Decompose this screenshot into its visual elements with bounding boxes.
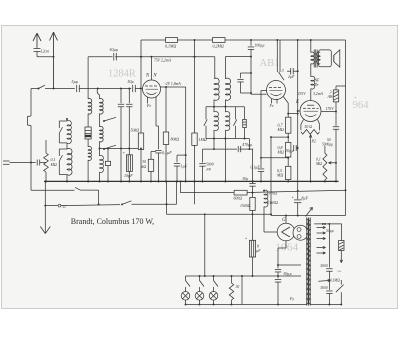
resistor 600 Ohm	[234, 190, 247, 195]
wire field to tube E	[335, 102, 337, 112]
coil L2 lower	[88, 146, 91, 160]
coil IF2 secondary	[225, 111, 229, 130]
potentiometer 0,1M hum	[324, 146, 326, 153]
svg-text:Dr: Dr	[314, 83, 320, 87]
svg-text:470µµ: 470µµ	[242, 143, 252, 147]
svg-text:10µF: 10µF	[124, 173, 133, 178]
tube AB1 cathode arc	[271, 94, 282, 96]
svg-text:50µµ: 50µµ	[326, 229, 334, 233]
coil L2 upper	[88, 99, 92, 114]
coil L1 lower	[66, 143, 68, 149]
wire tube E grid left	[298, 110, 300, 112]
wire heater run mid	[80, 189, 98, 191]
transformer tap arrows	[317, 227, 326, 229]
tube E grid line	[307, 104, 314, 106]
wire L3 lower	[99, 141, 101, 148]
speaker LS voice coil box	[319, 50, 332, 67]
capacitor padder 10uu	[107, 149, 109, 162]
svg-text:E: E	[295, 100, 299, 105]
switch bracket L1 upper	[59, 120, 67, 122]
switch S1 antenna	[39, 85, 46, 88]
transformer T mains secondary winding	[308, 246, 310, 304]
wire into tube N	[135, 88, 142, 90]
svg-text:30: 30	[236, 285, 240, 289]
wire mains drop x341	[341, 224, 343, 241]
capacitor 30uu heater	[296, 147, 298, 149]
svg-text:50 Ω: 50 Ω	[305, 125, 313, 129]
voltage selector arrow	[306, 208, 313, 217]
lamp La2	[199, 276, 201, 281]
wire chain mid2	[287, 157, 289, 166]
wire tube N cathode down	[155, 103, 157, 126]
wire rect bottom	[285, 241, 287, 248]
svg-text:50µµ: 50µµ	[284, 272, 292, 276]
wire row y214	[167, 213, 272, 215]
capacitor 12cm antenna series	[34, 48, 41, 50]
svg-text:30µµ: 30µµ	[286, 149, 294, 153]
svg-text:Fe: Fe	[146, 103, 151, 108]
wire IF2 stubs down	[213, 130, 215, 139]
capacitor trimmer C t2	[128, 89, 130, 104]
field coil 370 3160	[264, 190, 268, 207]
wire 50k to bus	[140, 150, 142, 182]
coil L3 middle	[100, 126, 104, 141]
tube N grid dashes	[145, 85, 148, 87]
capacitor electrolytic 10uF	[126, 155, 132, 172]
wire grid return y87	[161, 86, 186, 88]
wire IF2 top bracket row	[206, 106, 245, 108]
wire hook coil L3	[97, 89, 99, 96]
wire rect row y215	[271, 215, 346, 217]
svg-text:~: ~	[338, 269, 342, 276]
wire cathode row	[100, 148, 139, 150]
coil L3 lower	[100, 156, 104, 173]
svg-text:50: 50	[327, 138, 331, 142]
svg-text:5000: 5000	[321, 264, 328, 268]
svg-text:MΩ: MΩ	[276, 173, 283, 178]
antenna arrow A2	[53, 33, 55, 89]
switch IF2 left	[205, 107, 207, 120]
wire L2 middle	[87, 114, 89, 127]
wire drop x176	[176, 181, 178, 204]
capacitor 1uF branch	[177, 154, 186, 156]
lamp row top wire	[186, 275, 253, 277]
wire IF1 bottoms	[213, 100, 215, 112]
resistor 1500 Ohm	[250, 197, 255, 210]
wire into IF1	[214, 57, 216, 79]
resistor mains dropper	[339, 241, 344, 251]
svg-text:Fe: Fe	[269, 103, 274, 108]
wire filter x278	[277, 248, 279, 268]
switch IF2 right	[235, 107, 237, 120]
wire into rectifier	[285, 216, 287, 224]
antenna arrow A1	[36, 34, 38, 47]
wire plate pair to AB1	[276, 40, 278, 72]
switch wave band upper	[104, 117, 116, 121]
capacitor 5uu series	[76, 85, 78, 92]
earth wire continue	[61, 205, 120, 206]
wire x252 down	[252, 149, 254, 183]
tube AB1 grid dashes	[269, 87, 272, 89]
selector arrow mains	[318, 279, 330, 282]
coil IF1 primary	[214, 78, 219, 100]
svg-text:600Ω: 600Ω	[234, 196, 243, 200]
transformer T out core	[313, 50, 315, 68]
svg-text:12cm: 12cm	[41, 49, 50, 54]
wire screen row y56.7	[88, 56, 113, 58]
svg-text:MΩ: MΩ	[50, 162, 57, 167]
speaker LS cone	[333, 55, 335, 61]
wire input left	[31, 88, 39, 90]
capacitor 0,1uF cathode	[155, 149, 161, 151]
wire af takeoff y157.8	[261, 157, 288, 159]
svg-text:100µµ: 100µµ	[255, 43, 265, 47]
svg-text:1MΩ: 1MΩ	[199, 137, 207, 142]
transformer T mains secondary winding upper	[309, 220, 311, 244]
earth wire to drop	[132, 203, 177, 205]
tube N pins Fe	[147, 97, 149, 103]
svg-text:170V: 170V	[326, 107, 335, 111]
wire left vertical	[30, 89, 32, 117]
wire left vertical lower	[30, 126, 32, 163]
wire heater run right2	[253, 190, 346, 192]
jack J1 pickup	[28, 116, 32, 126]
svg-text:MΩ: MΩ	[277, 150, 284, 155]
tube G filament	[282, 227, 291, 232]
capacitor pickup series	[10, 162, 36, 164]
coil T out secondary	[317, 52, 321, 64]
svg-text:1µF: 1µF	[181, 164, 188, 169]
watermark 964	[355, 97, 357, 99]
resistor 30k	[151, 151, 156, 153]
switch wave band lower	[104, 145, 116, 149]
wire filter row y265	[278, 264, 301, 266]
tube N envelope	[143, 80, 161, 98]
tube N top lead	[151, 57, 153, 80]
svg-text:P2: P2	[311, 140, 316, 144]
wire heater run left	[31, 189, 75, 191]
wire x225 to bus	[224, 139, 226, 182]
capacitor trimmer C t1	[120, 89, 122, 104]
wire lamp drop x204	[204, 214, 206, 276]
svg-text:50µ: 50µ	[128, 79, 134, 84]
svg-text:5µµ: 5µµ	[72, 79, 79, 84]
earth wire row y205	[45, 205, 58, 207]
resistor 30 Ohm lamps	[231, 276, 233, 283]
resistor 0,8M	[286, 142, 291, 157]
wire coil L2 top feed	[87, 57, 89, 99]
wire chain to bus	[287, 180, 289, 182]
capacitor electrolytic 8uF main2	[249, 240, 255, 257]
wire branch 600 from bus	[180, 181, 182, 192]
choke NF Dr	[311, 76, 315, 89]
wire 600 to junction	[247, 192, 252, 194]
tube N cathode arc	[147, 93, 157, 95]
wire filter row y276	[253, 275, 302, 277]
svg-text:MΩ: MΩ	[277, 127, 284, 132]
wire L3 middle	[99, 114, 101, 127]
wire lamp drop x242	[241, 276, 243, 305]
trimmer branch AB1	[241, 72, 252, 74]
svg-text:80kΩ: 80kΩ	[171, 137, 180, 142]
wire choke to tube E	[310, 89, 312, 101]
coil L1 upper	[66, 119, 68, 121]
core slug L2	[85, 127, 91, 139]
wire to C 5uu	[45, 88, 75, 90]
capacitor 0,1uF af	[260, 158, 262, 168]
wire antenna junction	[37, 56, 54, 58]
wire x251 down	[250, 57, 252, 95]
svg-text:964: 964	[353, 100, 369, 111]
wiper arrow 0,1M	[329, 162, 337, 164]
terminal G	[58, 204, 61, 207]
svg-text:Brandt, Columbus 170 W,: Brandt, Columbus 170 W,	[71, 217, 154, 226]
svg-text:NF: NF	[314, 79, 321, 83]
wire avc branch x185	[185, 87, 187, 181]
svg-text:5000: 5000	[321, 286, 328, 290]
svg-text:+: +	[245, 236, 248, 241]
svg-text:2µF: 2µF	[288, 75, 295, 79]
resistor 50k	[138, 133, 143, 150]
svg-text:370Ω: 370Ω	[269, 192, 278, 196]
svg-text:Fy: Fy	[289, 297, 294, 301]
svg-text:3: 3	[282, 68, 284, 73]
wire AB1 plate to chain	[283, 97, 288, 104]
svg-text:50µ: 50µ	[243, 177, 249, 181]
transformer T mains core	[307, 218, 310, 306]
chassis bus y181	[44, 180, 339, 182]
wire drop x166	[166, 181, 168, 214]
lamp La3	[213, 276, 215, 281]
capacitor 2uF	[293, 70, 298, 72]
resistor 80k	[165, 87, 167, 132]
wire detector row	[203, 148, 238, 150]
svg-text:3160Ω: 3160Ω	[268, 201, 279, 205]
svg-text:8: 8	[257, 245, 259, 249]
svg-text:µµ: µµ	[207, 167, 211, 171]
capacitor 5000uu	[202, 149, 204, 162]
tube E envelope	[300, 101, 321, 122]
resistor 3AW field	[336, 85, 346, 87]
wire 1M to earth drop	[194, 181, 196, 204]
wire IF1 secondary top	[224, 57, 226, 79]
resistor 0,1M top	[166, 38, 178, 43]
transformer T mains primary winding	[306, 219, 309, 304]
tube G envelope	[277, 223, 295, 241]
wire AB1 side to af	[261, 90, 267, 92]
svg-text:MΩ: MΩ	[315, 162, 322, 166]
resistor 0,7M	[286, 117, 291, 133]
coil IF2 primary	[214, 111, 218, 130]
capacitor series x336	[335, 112, 337, 126]
tube E grid dashes	[303, 107, 306, 109]
capacitor 50u small	[249, 183, 255, 185]
wire 8uF2 to lamp row	[252, 257, 254, 276]
bottom wire y304	[186, 304, 342, 306]
resistor 1M x194	[194, 40, 196, 133]
mains switch	[336, 285, 344, 293]
svg-text:AW: AW	[327, 94, 334, 99]
wire outer right vertical x345	[345, 40, 347, 216]
tube G heater circle	[293, 225, 308, 240]
switch S2	[75, 187, 80, 190]
wire chain mid1	[287, 133, 289, 142]
coil L3 upper	[100, 99, 104, 114]
wire outer left vertical x297	[297, 40, 299, 199]
capacitor 50uu series	[113, 53, 115, 60]
svg-text:1284R: 1284R	[108, 68, 136, 79]
svg-text:N N: N N	[145, 74, 158, 79]
tube E cathode arc	[305, 115, 316, 117]
wire tap row y224	[314, 223, 341, 225]
trimmer IF2 branch	[244, 107, 246, 120]
wire plate feed vertical x141	[140, 40, 142, 133]
capacitor electrolytic 8uF main1	[297, 198, 299, 201]
tube AB1 pins Fe	[271, 99, 273, 104]
svg-text:1500Ω: 1500Ω	[240, 204, 251, 208]
svg-text:G: G	[282, 218, 286, 223]
svg-text:8µF: 8µF	[302, 196, 309, 200]
svg-text:5000µµ: 5000µµ	[322, 143, 333, 147]
resistor 0,2M top	[213, 38, 226, 43]
wire IF2 bottom row	[206, 138, 249, 140]
wire 1500 to 8uF	[252, 210, 254, 240]
coil IF1 secondary	[225, 78, 230, 100]
switch earth	[122, 201, 132, 205]
lamp La1	[185, 276, 187, 281]
svg-text:kΩ: kΩ	[142, 164, 147, 169]
resistor 0,5M	[286, 166, 291, 179]
resistor 0,1 MOhm zigzag left	[45, 140, 47, 153]
wire mains feed right junction	[345, 189, 347, 191]
tube AB1 envelope	[267, 81, 286, 100]
potentiometer 50 Ohm hum	[301, 120, 304, 125]
wire input middle	[79, 88, 131, 90]
capacitor 100uu	[250, 40, 252, 46]
svg-text:50µµ: 50µµ	[110, 47, 119, 52]
wire ground drop x45	[44, 181, 46, 233]
wire chain drop x271	[270, 137, 272, 215]
mains arrow down	[340, 251, 342, 263]
svg-text:50kΩ: 50kΩ	[131, 128, 140, 133]
switch bracket L1 lower	[59, 148, 67, 150]
terminal pickup left edge	[3, 160, 10, 162]
capacitor 470uu series	[237, 146, 239, 152]
wire filter column x329	[328, 224, 330, 268]
svg-text:235V: 235V	[298, 92, 307, 96]
svg-text:AB1: AB1	[260, 58, 280, 69]
ground symbol	[40, 227, 45, 234]
wiper P2	[309, 135, 310, 138]
wire B+ bus y40	[141, 39, 346, 41]
tube G heater loops	[297, 228, 301, 232]
capacitor 50u series	[132, 85, 134, 92]
svg-text:µF: µF	[256, 249, 261, 253]
wire chain to E grid	[288, 113, 298, 115]
coil T out primary	[310, 40, 312, 53]
